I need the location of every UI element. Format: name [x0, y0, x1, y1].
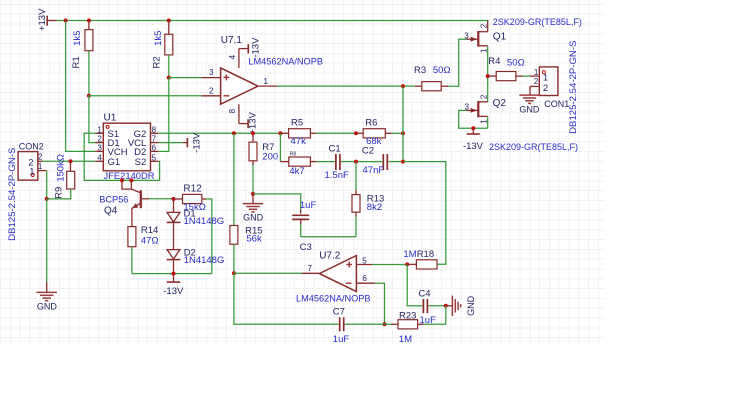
wire out node down: [234, 273, 339, 324]
wire R4 left lead: [488, 75, 497, 77]
part D2 1N4148G: [184, 255, 225, 266]
wire D1-D2: [173, 222, 175, 249]
junction row1-fb: [401, 131, 405, 135]
junction row1-R15: [232, 131, 236, 135]
svg-text:R5: R5: [291, 117, 303, 128]
label GND left: [37, 302, 58, 312]
svg-text:GND: GND: [37, 302, 58, 312]
resistor R7: [249, 142, 257, 161]
value R2 1k5: [153, 31, 164, 46]
svg-text:2: 2: [543, 83, 548, 94]
label R4: [488, 56, 500, 67]
value R1 1k5: [72, 31, 83, 46]
resistor R6: [363, 129, 385, 138]
svg-text:C2: C2: [362, 145, 374, 156]
label R18: [417, 249, 434, 260]
wire noninv input: [169, 77, 202, 79]
svg-text:1.5nF: 1.5nF: [325, 170, 349, 181]
pin 2 stub U7.1: [202, 86, 221, 95]
label R5: [291, 117, 303, 128]
wire emitter rail: [132, 273, 212, 275]
CON2 pin texts: [28, 153, 43, 178]
junction rail-A: [64, 19, 68, 23]
svg-text:Q2: Q2: [493, 98, 507, 109]
value R14 47: [141, 236, 159, 247]
svg-text:DB125-2.54-2P-GN-S: DB125-2.54-2P-GN-S: [7, 148, 18, 241]
label BCP56: [99, 195, 128, 205]
wire S1 to S2 loop: [84, 133, 159, 180]
svg-text:DB125-2.54-2P-GN-S: DB125-2.54-2P-GN-S: [568, 41, 579, 134]
capacitor C3: [292, 215, 309, 219]
wire R1 bottom: [88, 51, 90, 96]
wire VCL to -13V: [159, 142, 183, 144]
wire R8 right: [310, 161, 335, 163]
wire R3 right lead: [441, 85, 448, 87]
junction -13V bottom: [172, 272, 176, 276]
svg-text:GND: GND: [243, 213, 264, 223]
power -13V at U1 VCL: [183, 132, 203, 153]
value R9 150k: [56, 154, 67, 182]
label R14: [141, 225, 158, 236]
svg-text:-13V: -13V: [163, 286, 184, 297]
wire R5 right: [310, 132, 356, 134]
transistor Q2: [466, 101, 488, 117]
wire C4node to R23: [445, 306, 447, 325]
label Q2: [493, 98, 507, 109]
svg-text:GND: GND: [466, 295, 476, 316]
wire +13V to VCH: [66, 21, 96, 152]
wire R6 left lead: [356, 132, 363, 134]
ground GND CON1: [519, 95, 539, 103]
wire R1node to U1 D1: [89, 96, 95, 143]
svg-text:8: 8: [228, 108, 237, 113]
part 2SK209 top: [493, 17, 582, 27]
value R3 50: [433, 65, 451, 76]
CON2 pin1 stub: [38, 170, 47, 172]
CON2 pin2 stub: [38, 160, 43, 162]
svg-text:3: 3: [464, 32, 469, 41]
wire R9 top lead: [70, 161, 72, 171]
wire U7.2 out: [234, 272, 302, 274]
junction out-fb: [401, 84, 405, 88]
svg-text:47k: 47k: [291, 136, 307, 147]
junction C7 node: [383, 322, 387, 326]
svg-text:150kΩ: 150kΩ: [56, 154, 67, 182]
svg-text:2: 2: [209, 86, 214, 95]
svg-text:1M: 1M: [403, 249, 416, 260]
wire R13 bottom: [355, 212, 357, 237]
svg-text:C4: C4: [418, 288, 430, 299]
svg-text:R1: R1: [71, 56, 82, 68]
label R12: [183, 184, 202, 195]
wire R7 gnd stem: [252, 194, 254, 204]
wire R2 bottom: [168, 55, 170, 78]
transistor Q4 emitter: [132, 203, 141, 227]
wire R14 bottom: [131, 247, 133, 274]
junction S1S2-b: [129, 178, 133, 182]
wire pin5 to R18: [372, 264, 407, 266]
capacitor C4: [423, 299, 427, 313]
svg-text:-13V: -13V: [191, 132, 202, 153]
svg-text:U1: U1: [104, 113, 117, 124]
pin 1 stub U7.1: [258, 77, 277, 86]
Q2 pin numbers: [465, 94, 489, 124]
wire C3 bottom lead: [300, 219, 302, 236]
wire +13V rail: [57, 20, 489, 22]
resistor R3 body: [422, 82, 441, 91]
wire gnd to C3: [253, 194, 301, 214]
part DB125 right: [568, 41, 579, 134]
svg-text:2SK209-GR(TE85L,F): 2SK209-GR(TE85L,F): [489, 142, 578, 152]
label R8: [290, 152, 297, 158]
junction R9 top: [69, 159, 73, 163]
wire R2node to D2: [159, 78, 169, 152]
wire R2 top lead: [168, 21, 170, 35]
svg-text:U7.1: U7.1: [221, 35, 243, 46]
svg-text:1: 1: [543, 73, 548, 84]
svg-text:1uF: 1uF: [300, 200, 317, 211]
value R4 50: [507, 57, 525, 68]
svg-text:C3: C3: [300, 242, 312, 253]
svg-text:8k2: 8k2: [367, 202, 382, 213]
svg-text:3: 3: [209, 68, 214, 77]
svg-text:1N4148G: 1N4148G: [184, 216, 225, 227]
svg-text:50Ω: 50Ω: [507, 57, 525, 68]
wire R3 to gates: [448, 39, 466, 86]
label D1: [184, 208, 196, 219]
label U7.2: [319, 251, 341, 262]
pin1 marker CON2: [31, 173, 34, 176]
label CON1: [544, 99, 569, 109]
wire R4 right: [516, 75, 530, 77]
label Q4: [104, 205, 118, 216]
junction R5-R6: [354, 131, 358, 135]
value R15 56k: [246, 234, 262, 245]
svg-text:1: 1: [479, 119, 488, 124]
wire R7 top lead: [252, 133, 254, 142]
value R8 4k7: [289, 166, 304, 177]
svg-text:R12: R12: [183, 184, 202, 195]
wire R18 left lead: [407, 263, 416, 265]
label R9: [54, 187, 65, 199]
svg-text:6: 6: [152, 144, 157, 153]
label R7: [262, 142, 274, 153]
label GND CON1: [519, 104, 540, 114]
wire R6 right: [385, 132, 403, 134]
label R1: [71, 56, 82, 68]
value C4 1uF: [420, 315, 437, 326]
part 2SK209 bottom: [489, 142, 578, 152]
svg-text:G1: G1: [108, 157, 121, 168]
wire gnd stem right: [446, 305, 453, 307]
value C3 1uF: [300, 200, 317, 211]
wire CON2 pin1 down: [46, 171, 48, 199]
part JFE2140DR: [104, 170, 155, 181]
wire C7 to R23: [345, 323, 391, 325]
wire inv input: [89, 95, 202, 97]
label C1: [329, 143, 341, 154]
wire R23 right: [418, 323, 446, 325]
transistor Q4 collector: [122, 180, 141, 193]
svg-text:Q4: Q4: [104, 205, 118, 216]
resistor R13: [352, 195, 360, 213]
junction Q2 source: [471, 126, 475, 130]
wire R12 right lead: [202, 198, 206, 200]
svg-text:2: 2: [97, 135, 102, 144]
junction row1-R5: [278, 131, 282, 135]
label C3: [300, 242, 312, 253]
svg-text:1: 1: [38, 162, 43, 171]
wire R9 bottom: [47, 189, 71, 199]
wire CON1 pin2 gnd: [529, 86, 531, 95]
svg-text:U7.2: U7.2: [319, 251, 341, 262]
svg-text:-13V: -13V: [463, 141, 484, 152]
svg-text:C7: C7: [333, 307, 345, 318]
svg-text:GND: GND: [519, 104, 540, 114]
svg-text:7: 7: [308, 264, 313, 273]
Q4 base stub: [142, 198, 149, 200]
resistor R3: [0, 0, 1, 1]
label C2: [362, 145, 374, 156]
svg-text:R2: R2: [152, 56, 163, 68]
diode D2: [167, 250, 181, 260]
svg-text:-13V: -13V: [251, 37, 262, 58]
value R12 15k: [183, 202, 205, 213]
part LM4562NA/NOPB U7.1: [248, 56, 323, 66]
label C7: [333, 307, 345, 318]
value C7 1uF: [333, 334, 350, 345]
label R3: [414, 65, 426, 76]
ground GND right: [452, 296, 460, 316]
svg-text:C1: C1: [329, 143, 341, 154]
wire U7.1 output: [277, 85, 415, 87]
resistor R9: [67, 171, 75, 189]
wire R7 bottom: [252, 161, 254, 194]
svg-text:3: 3: [97, 144, 102, 153]
Q1 drain up: [487, 21, 489, 32]
svg-text:1M: 1M: [399, 334, 412, 345]
svg-text:2: 2: [534, 77, 539, 86]
wire C3 bottom run: [301, 236, 356, 238]
svg-text:2: 2: [38, 153, 43, 162]
value C1 1.5nF: [325, 170, 349, 181]
svg-text:1uF: 1uF: [333, 334, 350, 345]
svg-text:5: 5: [152, 153, 157, 162]
svg-text:1: 1: [29, 167, 34, 178]
svg-text:1N4148G: 1N4148G: [184, 255, 225, 266]
wire C1-C2: [341, 161, 382, 163]
svg-text:R3: R3: [414, 65, 426, 76]
junction R9 bottom: [45, 197, 49, 201]
wire R12 left lead: [174, 198, 183, 200]
pin 7 stub U7.2: [302, 264, 319, 274]
svg-text:5: 5: [362, 256, 367, 265]
wire R5 left lead: [280, 132, 288, 134]
svg-text:1k5: 1k5: [72, 31, 83, 46]
svg-text:LM4562NA/NOPB: LM4562NA/NOPB: [296, 294, 371, 304]
svg-text:2: 2: [479, 94, 488, 99]
junction row2-fb: [401, 160, 405, 164]
wire R8 left lead: [280, 161, 288, 163]
label D2: [184, 248, 196, 259]
wire to GND left: [46, 199, 48, 292]
svg-text:47nF: 47nF: [363, 165, 385, 176]
pin 8 stub U7.1: [228, 104, 239, 123]
junction U7.2 out: [232, 271, 236, 275]
svg-text:R23: R23: [399, 311, 416, 322]
value R7 200: [262, 152, 278, 163]
svg-text:Q1: Q1: [493, 31, 507, 42]
transistor Q1: [466, 31, 488, 47]
power -13V at Q2: [463, 128, 484, 152]
svg-text:JFE2140DR: JFE2140DR: [104, 170, 155, 181]
junction row2 mid: [354, 160, 358, 164]
wire pin6 down: [375, 283, 384, 324]
wire row1 from G2: [159, 132, 280, 134]
svg-text:CON1: CON1: [544, 99, 569, 109]
svg-text:1: 1: [479, 48, 488, 53]
label GND R7: [243, 213, 264, 223]
wire R23 left lead: [391, 323, 398, 325]
resistor R4: [496, 72, 516, 81]
svg-text:7: 7: [152, 135, 157, 144]
wire R1 top lead: [88, 21, 90, 30]
part D1 1N4148G: [184, 216, 225, 227]
power +13V at U7.1 pin8: [239, 112, 259, 135]
resistor R15: [230, 226, 238, 245]
U1 pin names: [97, 125, 156, 168]
ground GND left: [37, 292, 57, 300]
wire Q1 source down: [487, 46, 489, 102]
wire row2 to R18: [403, 162, 446, 265]
value R18 1M: [403, 249, 416, 260]
op-amp U7.1: [221, 68, 258, 104]
svg-text:56k: 56k: [246, 234, 262, 245]
op-amp U7.2: [319, 256, 356, 292]
junction row1-R7: [251, 131, 255, 135]
resistor R2: [165, 34, 173, 55]
resistor R1: [85, 30, 93, 51]
wire R18node to C4: [407, 264, 422, 305]
svg-text:S2: S2: [135, 157, 147, 168]
junction rail-R2: [167, 19, 171, 23]
svg-text:2SK209-GR(TE85L,F): 2SK209-GR(TE85L,F): [493, 17, 582, 27]
svg-text:4: 4: [97, 153, 102, 162]
IC U1 body: [103, 123, 150, 171]
power +13V symbol: [37, 8, 57, 31]
resistor R14: [128, 227, 136, 247]
resistor R23: [398, 320, 418, 329]
svg-text:+13V: +13V: [247, 112, 258, 135]
connector CON2 body: [18, 152, 38, 181]
pin 6 stub U7.2: [356, 274, 375, 283]
capacitor C1: [336, 154, 340, 170]
wire Q4 emitter lead: [0, 0, 1, 1]
junction R18 left: [405, 262, 409, 266]
value R23 1M: [399, 334, 412, 345]
wire C2 right: [388, 161, 403, 163]
wire R3 left lead: [415, 85, 422, 87]
pin 3 stub U7.1: [202, 68, 221, 77]
junction R1-node: [87, 94, 91, 98]
label C4: [418, 288, 430, 299]
label GND right: [466, 295, 476, 316]
label R6: [365, 117, 377, 128]
junction S1S2-a: [120, 178, 124, 182]
svg-text:R6: R6: [365, 117, 377, 128]
svg-text:200: 200: [262, 152, 278, 163]
CON1 pin texts: [534, 68, 548, 94]
wire D2 bottom: [173, 260, 175, 274]
value R13 8k2: [367, 202, 382, 213]
transistor Q4 base bar: [140, 190, 142, 208]
capacitor C7: [340, 317, 344, 331]
label U1: [104, 113, 117, 124]
junction Q1Q2: [486, 74, 490, 78]
svg-text:R18: R18: [417, 249, 434, 260]
svg-text:CON2: CON2: [19, 141, 44, 151]
wire Q4 base to node: [149, 198, 173, 200]
capacitor C2: [383, 154, 387, 170]
pin1 marker U1: [106, 125, 109, 128]
label U7.1: [221, 35, 243, 46]
value C2 47nF: [363, 165, 385, 176]
resistor R5: [289, 129, 311, 138]
svg-text:8: 8: [152, 125, 157, 134]
junction R2-node: [167, 76, 171, 80]
value R6 68k: [366, 136, 382, 147]
power -13V bottom: [163, 274, 184, 297]
svg-text:R9: R9: [54, 187, 65, 199]
svg-text:1k5: 1k5: [153, 31, 164, 46]
wire C4 right: [428, 305, 445, 307]
junction base node: [172, 197, 176, 201]
resistor R12: [183, 194, 202, 203]
label R23: [399, 311, 416, 322]
ground GND R7: [243, 204, 263, 212]
svg-text:4k7: 4k7: [289, 166, 304, 177]
wire R15 column: [233, 133, 235, 225]
junction C4 gnd: [444, 304, 448, 308]
svg-text:BCP56: BCP56: [99, 195, 128, 205]
wire R12 right down: [206, 199, 212, 274]
Q1 pin numbers: [464, 23, 488, 53]
diode D1: [167, 199, 181, 222]
CON1 pin2 stub: [530, 85, 539, 87]
pin 5 stub U7.2: [356, 256, 372, 265]
resistor R18: [416, 260, 437, 269]
svg-text:4: 4: [228, 54, 237, 59]
wire fb vertical: [402, 86, 404, 162]
svg-text:R4: R4: [488, 56, 500, 67]
svg-text:6: 6: [362, 274, 367, 283]
label Q1: [493, 31, 507, 42]
label R13: [367, 193, 384, 204]
svg-text:47Ω: 47Ω: [141, 236, 159, 247]
pin 4 stub U7.1: [228, 49, 239, 68]
label R15: [245, 225, 262, 236]
wire CON2 pin2 to G1: [43, 160, 96, 162]
label R2: [152, 56, 163, 68]
resistor R8 4k7: [289, 157, 311, 166]
CON1 pin1 stub: [530, 75, 540, 77]
wire row1 to row2 drop: [279, 133, 281, 161]
svg-text:1: 1: [97, 125, 102, 134]
svg-text:R8: R8: [290, 152, 297, 158]
part LM4562NA/NOPB U7.2: [296, 294, 371, 304]
part DB125 left: [7, 148, 18, 241]
connector CON1 body: [539, 67, 558, 96]
